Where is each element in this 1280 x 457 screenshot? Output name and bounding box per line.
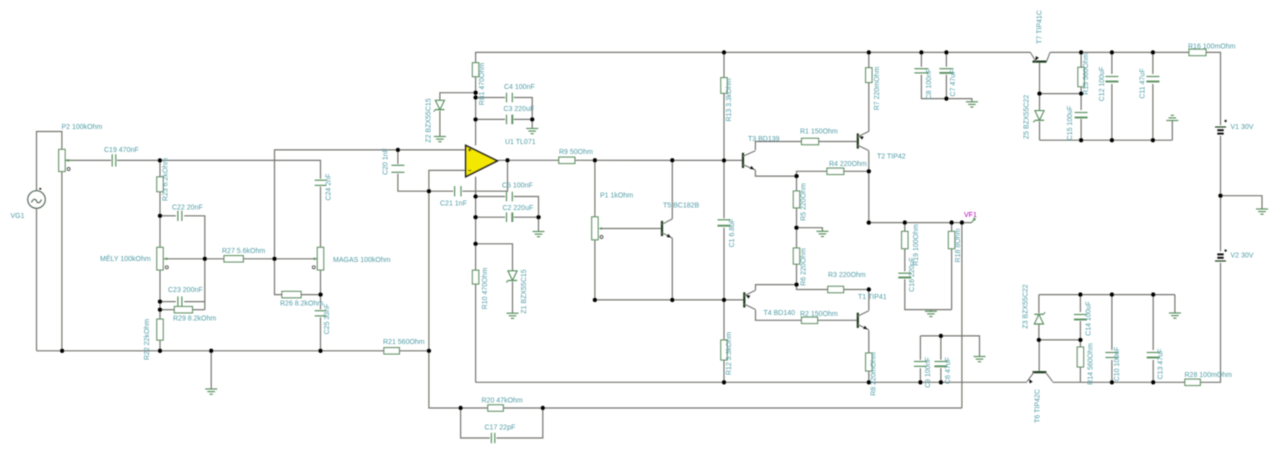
wire R1 to T2 base [819,141,858,143]
wire R5 top lead [796,176,798,191]
wire C6 bottom lead [940,368,942,382]
potentiometer P1 [592,193,634,240]
capacitor C21 [440,186,467,208]
svg-text:C12 100uF: C12 100uF [1099,67,1106,102]
svg-text:C21 1nF: C21 1nF [440,201,467,208]
resistor R23 [157,158,170,201]
wire C2 node to ground G4 [538,217,540,231]
wire input node to C24 [160,160,321,178]
wire T1 emitter to R8 [868,330,870,353]
wire negative rail [476,381,1027,383]
svg-text:C19 470nF: C19 470nF [104,147,139,154]
wire R28 left lead [1053,381,1185,383]
wire C2 right [514,216,539,218]
ground C9 C6 [974,357,986,362]
junction 35 [794,226,798,230]
svg-text:C4 100nF: C4 100nF [504,84,535,91]
junction 30 [722,380,726,384]
wire C5 branch left [476,196,506,198]
resistor R22 [144,319,163,360]
ground regulator bottom [1169,313,1181,318]
wire ground stem G11 [1171,121,1173,141]
junction 12 [318,292,322,296]
junction 1 [158,158,162,162]
resistor R16 [1188,43,1236,55]
capacitor C20 [382,148,404,175]
resistor R28 [1185,372,1233,386]
wire R10 to negative rail [475,284,477,382]
resistor R13 [721,78,733,122]
resistor R3 [828,272,866,293]
junction 36 [794,282,798,286]
junction 54 [1079,138,1083,142]
wire ground rail input [37,350,384,352]
junction 50 [1110,50,1114,54]
svg-text:RB1 470Ohm: RB1 470Ohm [479,63,486,106]
wire P2 wiper to C19 [65,159,111,161]
wire P2 bottom stem [61,172,63,351]
svg-text:C25 33nF: C25 33nF [324,304,331,335]
wire T5 collector [671,160,673,219]
wire Z5 top lead [1039,94,1041,111]
svg-text:C3 220uF: C3 220uF [504,106,535,113]
svg-text:VF1: VF1 [964,212,977,219]
wire C14 bottom lead [1079,321,1081,340]
wire R16 to V1 [1206,52,1221,125]
wire R29 left lead [160,309,174,311]
junction 15 [473,91,477,95]
svg-text:T6 TIP42C: T6 TIP42C [1035,389,1042,423]
svg-text:R22 22kOhm: R22 22kOhm [144,319,151,360]
resistor R21 [383,339,425,354]
capacitor C16 [898,257,916,292]
wire C15 leads [1080,94,1082,110]
wire C9 C6 ground wire [920,336,979,357]
svg-text:R18 8Ohm: R18 8Ohm [955,228,962,262]
wire R7 top lead [868,52,870,67]
capacitor C13 [1147,349,1165,380]
ground C2 C5 [533,232,545,237]
wire wiper node column [204,259,206,310]
wire VG1 top to P2 [37,132,62,191]
svg-text:T1 TIP41: T1 TIP41 [858,294,887,301]
wire C1 to R12 [723,228,725,340]
capacitor C17 [485,425,516,444]
wire C15 bottom lead [1080,119,1082,140]
resistor R20 [482,397,523,411]
wire C14 top lead [1079,295,1081,312]
wire C7 top lead [945,52,947,66]
wire battery mid to ground G10 [1221,196,1263,209]
transistor T2 [858,131,906,160]
svg-text:C16 220uF: C16 220uF [909,257,916,292]
wire T7 base to R15 node [1040,93,1082,95]
wire MAGAS bottom to C25 [320,270,322,309]
wire T6 base stem [1038,340,1040,371]
junction 20 [593,158,597,162]
wire T4 emitter to R6 node [756,285,797,290]
ground R5 R6 node [816,231,828,236]
resistor R8 [866,352,878,396]
wire R9 to T3 base node [575,159,743,161]
junction 33 [939,380,943,384]
wire T1 collector column [868,290,870,311]
junction 61 [1078,338,1082,342]
wire R23 top lead [159,160,161,177]
wire node A riser to op-amp + [275,150,466,259]
svg-text:P2 100kOhm: P2 100kOhm [62,124,103,131]
svg-text:C2 220uF: C2 220uF [503,205,534,212]
ground zobel [925,311,937,316]
junction 11 [272,257,276,261]
resistor R14 [1077,343,1094,385]
junction 16 [473,95,477,99]
svg-text:R6 220Ohm: R6 220Ohm [801,248,808,286]
zener diode Z3 [1023,284,1046,328]
junction 43 [939,334,943,338]
junction 2 [158,214,162,218]
wire Z2 branch [440,93,476,101]
potentiometer MELY [100,247,168,270]
wire C8 top lead [920,52,922,66]
svg-text:V1 30V: V1 30V [1231,124,1254,131]
ground input rail [205,389,217,394]
svg-text:T4 BD140: T4 BD140 [764,310,796,317]
svg-text:R16 100mOhm: R16 100mOhm [1188,43,1236,50]
junction 18 [530,117,534,121]
transistor T6 [1027,372,1053,423]
capacitor C19 [104,147,139,167]
potentiometer P2 [59,124,103,172]
wire C11 bottom lead [1152,84,1154,140]
wire C16 to zobel ground wire [905,279,931,309]
wire R6 bottom lead [796,264,798,285]
junction 3 [158,299,162,303]
wire P1 wiper to T5 base [600,228,662,230]
junction 13 [396,148,400,152]
wire T4 collector to R2 [756,310,802,320]
ground C3 C4 [526,129,538,134]
wire C4 branch left [476,97,506,99]
resistor R4 [827,161,867,175]
wire C1 top lead [723,160,725,218]
resistor R1 [800,128,838,144]
wire T3 emitter to R5 node [755,170,796,176]
wire R18 top lead [951,223,953,232]
wire T5 emitter [671,238,673,300]
wire T2 collector column [868,151,870,223]
wire C7 bottom lead [945,75,947,99]
battery V1 [1215,120,1254,134]
svg-text:Z2 BZX55C15: Z2 BZX55C15 [425,98,432,142]
junction 60 [1037,338,1041,342]
svg-text:R29 8.2kOhm: R29 8.2kOhm [173,316,216,323]
wire R7 to T2 emitter [868,83,870,132]
svg-text:C1 6.8uF: C1 6.8uF [729,219,736,248]
wire C12 bottom lead [1111,84,1113,140]
svg-text:VG1: VG1 [11,213,25,220]
wire op-amp output to R9 [497,159,559,161]
junction 57 [1078,292,1082,296]
svg-text:R13 3.3kOhm: R13 3.3kOhm [726,78,733,121]
junction 23 [473,194,477,198]
wire R14 top lead [1079,340,1081,347]
junction 25 [536,215,540,219]
wire R3 to T1 collector [844,289,869,291]
svg-text:R26 8.2kOhm: R26 8.2kOhm [280,301,323,308]
wire C12 top lead [1111,52,1113,74]
resistor R26 [280,291,323,307]
zener diode Z5 [1023,95,1044,139]
wire C19 to input node [117,159,160,161]
junction 32 [918,380,922,384]
wire C20 bottom to inverting node [398,174,429,192]
wire C8 bottom to ground wire [921,75,972,102]
svg-text:C8 100nF: C8 100nF [926,69,933,100]
wire P1 top stem [594,160,596,217]
svg-text:C13 47uF: C13 47uF [1157,349,1164,380]
wire top rail right section [1050,51,1189,53]
svg-text:T2 TIP42: T2 TIP42 [877,154,906,161]
wire R29 right lead [193,309,205,311]
ground regulator top [1166,115,1178,120]
svg-text:T7 TIP41C: T7 TIP41C [1037,10,1044,44]
ground C7 C8 [966,102,978,107]
capacitor C11 [1139,68,1159,98]
wire T7 base [1039,63,1041,94]
wire MELY bottom column [159,270,161,319]
svg-text:R28 100mOhm: R28 100mOhm [1185,372,1233,379]
svg-text:R27 5.6kOhm: R27 5.6kOhm [222,248,265,255]
wire R4 to T2 collector [844,170,869,172]
wire Z1 branch [476,244,513,271]
wire T3 collector to R1 [755,142,801,151]
op-amp U1 [466,139,536,177]
junction 10 [203,257,207,261]
wire output node [869,222,972,224]
wire Z5 bottom lead [1039,122,1041,141]
ground battery mid [1256,209,1268,214]
wire R12 to negative rail [723,360,725,382]
wire R13 top lead [723,52,725,77]
junction 41 [949,220,953,224]
wire regulator ground wire top [1040,139,1173,141]
transistor T4 [744,290,795,317]
junction 40 [903,220,907,224]
resistor R12 [721,332,733,375]
wire C23 right lead [184,301,205,303]
svg-text:R12 3.3kOhm: R12 3.3kOhm [726,332,733,375]
wire Z3 bottom lead [1038,324,1040,340]
wire C13 top lead [1152,295,1154,350]
capacitor C4 [504,84,535,102]
svg-text:MAGAS 100kOhm: MAGAS 100kOhm [333,257,391,264]
resistor R7 [866,67,881,111]
wire R14 bottom lead [1079,367,1081,382]
junction 66 [541,406,545,410]
resistor R10 [472,268,489,310]
wire node A to R26 [275,259,282,295]
svg-text:C15 100uF: C15 100uF [1067,106,1074,141]
svg-text:R9 50Ohm: R9 50Ohm [559,149,593,156]
junction 5 [60,349,64,353]
svg-text:R20 47kOhm: R20 47kOhm [482,397,523,404]
transistor T1 [858,294,887,331]
wire R15 top lead [1080,52,1082,67]
wire MELY wiper to R27 [164,258,224,260]
ground Z1 [507,313,519,318]
junction 55 [1110,138,1114,142]
svg-text:C14 100uF: C14 100uF [1086,301,1093,336]
junction 65 [458,406,462,410]
junction 53 [1079,91,1083,95]
wire V2 to negative rail corner [1200,263,1220,383]
capacitor C24 [315,174,333,201]
wire V- to R10 [475,244,477,270]
junction 24 [473,215,477,219]
resistor R5 [793,183,807,221]
junction 45 [867,50,871,54]
ground Z2 [434,137,446,142]
junction 4 [158,308,162,312]
svg-text:C17 22pF: C17 22pF [485,425,516,432]
wire R22 bottom lead [159,340,161,351]
resistor R27 [222,248,265,262]
svg-text:R14 560Ohm: R14 560Ohm [1087,343,1094,385]
capacitor C7 [939,69,957,97]
zener diode Z2 [425,98,444,142]
junction 19 [505,158,509,162]
svg-text:R5 220Ohm: R5 220Ohm [801,183,808,221]
svg-text:R23 6.2kOhm: R23 6.2kOhm [163,158,170,201]
wire R2 to T1 base [818,319,858,321]
voltage generator VG1 [11,188,46,220]
svg-text:C10 100nF: C10 100nF [1114,347,1121,382]
junction 49 [1079,50,1083,54]
capacitor C8 [914,69,933,100]
capacitor C3 [504,106,535,124]
wire C17 loop right [496,408,542,438]
wire C21 right to output drop [462,160,507,191]
capacitor C22 [172,205,203,222]
capacitor C6 [934,357,952,384]
junction 39 [867,287,871,291]
svg-text:P1 1kOhm: P1 1kOhm [600,193,633,200]
junction 62 [1110,380,1114,384]
svg-text:R1 150Ohm: R1 150Ohm [800,128,838,135]
svg-text:V2 30V: V2 30V [1231,253,1254,260]
wire C2 branch left [476,216,506,218]
transistor T5 [662,203,700,240]
svg-text:R7 220mOhm: R7 220mOhm [874,67,881,111]
resistor R2 [800,311,838,324]
wire C21 left lead [429,190,453,192]
wire Z2 to ground G2 [439,111,441,137]
resistor R18 [948,228,962,262]
svg-text:C9 100nF: C9 100nF [925,357,932,388]
junction 51 [1151,50,1155,54]
wire C3 node to ground G3 [531,119,533,128]
output pin VF1 [964,212,977,223]
junction 56 [1151,138,1155,142]
svg-text:C6 47uF: C6 47uF [945,357,952,384]
svg-text:C23 200nF: C23 200nF [168,287,203,294]
wire C5 right to C2 node [514,197,539,218]
wire VG1 bottom [36,208,38,351]
svg-text:C22 20nF: C22 20nF [172,205,203,212]
wire C22 to wiper node [184,216,205,259]
capacitor C2 [503,205,534,222]
battery V2 [1215,249,1254,261]
junction 42 [960,220,964,224]
wire C9 bottom lead [919,368,921,382]
wire Z1 to ground G5 [512,282,514,313]
wire ground stem G12 [1174,295,1176,313]
junction 31 [867,380,871,384]
wire C10 top lead [1111,295,1113,350]
junction 28 [670,298,674,302]
resistor R15 [1078,53,1090,95]
wire R21 right lead [399,350,429,352]
junction 27 [593,298,597,302]
junction 37 [867,169,871,173]
junction 7 [209,349,213,353]
wire R5R6 node to ground G6 [797,228,823,232]
svg-text:R8 220mOhm: R8 220mOhm [871,352,878,396]
svg-text:C11 47uF: C11 47uF [1139,68,1146,98]
svg-text:R10 470Ohm: R10 470Ohm [482,268,489,310]
resistor R19 [902,224,920,266]
junction 58 [1110,292,1114,296]
resistor R6 [793,248,807,286]
transistor T3 [743,136,780,171]
wire jog to R3 [797,285,828,290]
capacitor C5 [502,183,533,202]
svg-text:R2 150Ohm: R2 150Ohm [800,311,838,318]
capacitor C10 [1105,347,1121,382]
svg-text:R21 560Ohm: R21 560Ohm [383,339,425,346]
wire feedback drop from output [961,223,963,408]
junction 14 [427,189,431,193]
capacitor C23 [168,287,203,307]
wire top rail left section [476,52,1031,62]
svg-text:R4 220Ohm: R4 220Ohm [829,161,867,168]
wire C9 top lead [919,336,921,360]
svg-text:T5 BC182B: T5 BC182B [663,203,700,210]
wire C11 top lead [1152,52,1154,74]
svg-text:C5 100nF: C5 100nF [502,183,533,190]
wire C22 branch [160,215,176,217]
junction 46 [919,50,923,54]
wire V1 to V2 [1220,136,1222,251]
junction 6 [158,349,162,353]
wire C10 bottom lead [1111,360,1113,382]
junction 48 [944,96,948,100]
wire R19 top lead [904,223,906,232]
svg-text:C7 47uF: C7 47uF [950,70,957,97]
junction 52 [1037,91,1041,95]
junction 26 [473,242,477,246]
wire R15 bottom lead [1080,87,1082,94]
wire Z3 to R14 node [1039,339,1081,341]
wire ground stem G1 [210,351,212,389]
wire C3 right [514,118,533,120]
junction 17 [473,117,477,121]
svg-text:R3 220Ohm: R3 220Ohm [828,272,866,279]
svg-text:U1 TL071: U1 TL071 [505,139,536,146]
wire C23 left lead [160,301,176,303]
svg-text:R15 560Ohm: R15 560Ohm [1083,53,1090,95]
